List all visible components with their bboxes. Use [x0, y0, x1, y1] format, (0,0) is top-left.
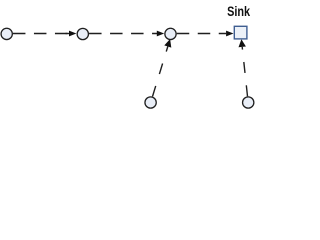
svg-text:Sink: Sink — [227, 3, 250, 19]
